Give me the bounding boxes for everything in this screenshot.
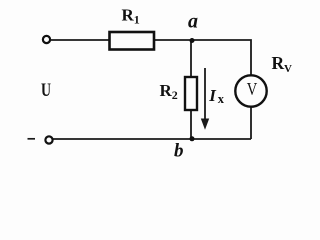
svg-text:x: x [218, 92, 225, 106]
svg-text:V: V [247, 79, 258, 99]
wire top-left: source + terminal to R1 [50, 39, 110, 41]
wire bottom: source - terminal to node b to right corner [53, 138, 251, 140]
wire voltmeter bottom [250, 107, 252, 140]
svg-text:R: R [160, 81, 173, 100]
svg-text:b: b [174, 141, 184, 162]
node a [190, 38, 195, 43]
current arrow Ix [204, 68, 206, 120]
svg-text:I: I [208, 86, 217, 105]
svg-text:V: V [284, 63, 292, 75]
terminal + (top left open circle) [43, 36, 50, 43]
wire node a to R2 [190, 40, 192, 78]
svg-text:a: a [188, 10, 198, 32]
node b [190, 136, 195, 141]
svg-text:2: 2 [172, 88, 178, 102]
resistor R2 [185, 77, 197, 110]
wire R2 to node b [190, 109, 192, 139]
svg-text:R: R [272, 53, 285, 73]
svg-text:U: U [41, 80, 51, 101]
svg-text:R: R [122, 6, 135, 25]
minus sign [28, 138, 36, 140]
wire top-right: R1 to node a to right corner [153, 40, 251, 76]
svg-text:1: 1 [134, 13, 140, 27]
resistor R1 [110, 32, 155, 50]
voltmeter RV [235, 75, 266, 106]
terminal - (bottom left open circle) [45, 136, 52, 143]
